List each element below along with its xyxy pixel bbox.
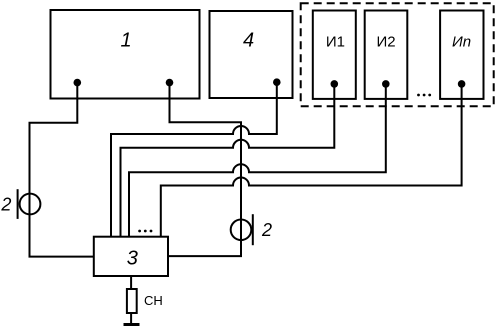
svg-text:И2: И2 bbox=[376, 34, 395, 51]
meter 2 (right) side bar bbox=[252, 214, 254, 245]
ground bbox=[124, 323, 140, 326]
wire: block 1 right pin through meter 2 (right) into block 3 right side bbox=[168, 83, 241, 257]
block И1 bbox=[313, 11, 356, 99]
block Иn bbox=[440, 11, 483, 99]
terminal: block 1 right pin bbox=[166, 79, 174, 87]
terminal: block 1 left pin bbox=[74, 79, 82, 87]
resistor СН bbox=[127, 289, 137, 313]
svg-text:И1: И1 bbox=[326, 34, 345, 51]
ellipsis between И2 and Иn bbox=[417, 94, 431, 97]
terminal: Иn pin bbox=[458, 80, 466, 88]
block 3 bbox=[94, 237, 168, 276]
wire L3: И2 pin to block 3 with hop over vertical run bbox=[129, 84, 386, 237]
block 1 bbox=[51, 10, 200, 99]
terminal: block 4 pin bbox=[273, 78, 281, 86]
svg-text:1: 1 bbox=[120, 30, 131, 52]
svg-text:3: 3 bbox=[127, 247, 138, 269]
svg-text:СН: СН bbox=[144, 293, 163, 308]
svg-text:4: 4 bbox=[243, 30, 254, 52]
wire: block 1 left pin through meter 2 (left) into block 3 left side bbox=[30, 83, 94, 257]
meter 2 (right) circle bbox=[231, 220, 252, 241]
ellipsis above block 3 between L3 and L4 bbox=[138, 230, 152, 233]
wire L2: И1 pin to block 3 with hop over vertical run bbox=[121, 84, 335, 237]
svg-text:2: 2 bbox=[0, 195, 11, 215]
dashed group box bbox=[301, 3, 494, 106]
block 4 bbox=[210, 11, 293, 98]
meter 2 (left) side bar bbox=[17, 189, 19, 219]
wire L1: block 4 pin to block 3 with hop over vertical run bbox=[111, 82, 277, 237]
wire: block 3 bottom to resistor СН bbox=[130, 276, 132, 289]
wire L4: Иn pin to block 3 with hop over vertical run bbox=[161, 84, 462, 237]
wire: resistor СН to ground bbox=[130, 313, 132, 324]
block И2 bbox=[365, 11, 408, 99]
svg-text:2: 2 bbox=[261, 220, 272, 240]
svg-text:Иn: Иn bbox=[452, 34, 471, 51]
terminal: И2 pin bbox=[382, 80, 390, 88]
terminal: И1 pin bbox=[331, 80, 339, 88]
meter 2 (left) circle bbox=[20, 194, 41, 215]
